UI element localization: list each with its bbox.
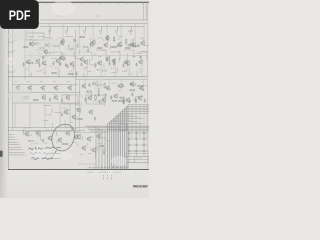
wire xyxy=(132,39,134,46)
wire: supply rail 3 xyxy=(40,26,144,28)
handwritten pencil note line 1 xyxy=(29,147,43,150)
wire xyxy=(62,23,64,40)
wire: bus line 3 horizontal xyxy=(124,107,149,109)
capacitor C15 xyxy=(59,62,61,66)
transistor Q5 xyxy=(89,41,94,47)
label specks xyxy=(130,73,133,75)
label specks xyxy=(103,178,104,180)
wire xyxy=(120,85,125,87)
wire xyxy=(135,105,137,139)
wire xyxy=(100,66,102,77)
label specks xyxy=(111,175,112,177)
label specks xyxy=(37,135,42,137)
resistor R6 xyxy=(97,47,103,48)
wire xyxy=(77,143,79,147)
transistor Q17 xyxy=(125,60,130,66)
wire: lower rail B xyxy=(8,130,85,132)
wire xyxy=(132,80,134,81)
subtle schematic-area wash xyxy=(8,2,149,170)
wire: matrix row xyxy=(127,150,149,152)
wire xyxy=(52,144,54,147)
wire xyxy=(45,37,51,39)
capacitor C16 xyxy=(113,62,115,66)
wire: bus line 4 vertical drop xyxy=(122,110,124,169)
label specks xyxy=(118,50,121,52)
wire xyxy=(146,105,148,139)
label specks xyxy=(25,68,28,70)
wire xyxy=(139,105,141,139)
wire xyxy=(75,116,77,120)
transistor Q19 xyxy=(43,49,48,55)
wire: bus line 7 horizontal xyxy=(117,114,133,116)
wire xyxy=(29,52,31,58)
transistor Q20 xyxy=(79,56,84,62)
capacitor C14 xyxy=(59,56,61,60)
wire xyxy=(108,80,110,85)
label specks xyxy=(97,69,100,71)
wire: section divider right xyxy=(79,80,81,132)
resistor R9 xyxy=(134,45,140,46)
wire xyxy=(14,104,16,128)
connector pin ticks under border xyxy=(87,172,89,173)
transistor Q33 xyxy=(67,85,72,91)
diode D4 xyxy=(128,150,131,152)
block: muting circuit outline xyxy=(86,95,104,104)
wire xyxy=(51,108,53,113)
resistor R39 xyxy=(62,143,68,144)
label specks xyxy=(133,55,136,57)
wire: matrix row xyxy=(127,138,149,140)
capacitor C8 xyxy=(122,64,124,68)
wire: bus line 2 horizontal xyxy=(126,106,149,108)
resistor R17 xyxy=(127,45,133,46)
label specks xyxy=(15,40,16,42)
wire xyxy=(72,45,74,49)
resistor R23 xyxy=(23,97,29,98)
wire: net stub 2 xyxy=(9,136,14,138)
label specks xyxy=(24,127,29,129)
resistor R18 xyxy=(126,39,127,45)
wire xyxy=(118,36,123,38)
wire xyxy=(22,129,24,135)
wire xyxy=(59,44,61,49)
wire xyxy=(110,51,120,53)
wire xyxy=(90,44,92,48)
wire xyxy=(71,142,76,144)
wire xyxy=(50,37,53,39)
capacitor C31 xyxy=(134,98,136,102)
wire xyxy=(141,65,143,77)
wire xyxy=(84,80,86,83)
capacitor C10 xyxy=(87,48,89,52)
label specks xyxy=(129,30,132,32)
wire xyxy=(116,67,118,73)
wire xyxy=(89,136,93,138)
wire xyxy=(105,50,107,58)
transistor Q55 xyxy=(57,137,62,143)
transistor Q10 xyxy=(25,59,30,65)
transistor Q22 xyxy=(123,59,128,65)
wire: ground return rail xyxy=(8,76,147,78)
block: connector CN1 xyxy=(119,124,127,130)
resistor R40 xyxy=(99,145,105,146)
capacitor C5 xyxy=(80,63,82,67)
wire xyxy=(33,143,38,145)
label specks xyxy=(106,140,111,142)
label specks xyxy=(27,81,30,83)
transistor Q43 xyxy=(87,95,92,101)
resistor R31 xyxy=(137,85,143,86)
wire xyxy=(137,51,147,53)
wire xyxy=(81,102,83,106)
wire xyxy=(51,57,58,59)
capacitor C17 xyxy=(65,63,67,67)
wire xyxy=(29,36,34,38)
resistor R38 xyxy=(28,140,34,141)
label specks xyxy=(15,70,16,72)
wire: bus drop left 2 xyxy=(98,128,100,170)
wire xyxy=(98,143,102,145)
transistor Q49 xyxy=(88,109,93,115)
label specks xyxy=(45,39,48,41)
label specks xyxy=(47,114,52,116)
capacitor C27 xyxy=(84,98,86,102)
wire xyxy=(73,63,75,69)
wire xyxy=(51,44,60,46)
transistor Q2 xyxy=(45,42,50,48)
transistor Q59 xyxy=(86,136,91,142)
wire: bus line 12 horizontal xyxy=(108,123,143,125)
wire: bus line 2 vertical drop xyxy=(125,107,127,170)
wire xyxy=(61,53,66,55)
connector pin stubs along top border xyxy=(45,2,47,4)
transistor Q14 xyxy=(83,59,88,65)
resistor R30 xyxy=(130,84,136,85)
wire xyxy=(128,66,130,77)
label above module xyxy=(27,30,30,32)
wire xyxy=(84,66,88,68)
wire xyxy=(118,58,120,62)
diode D9 xyxy=(143,132,146,134)
label: rail voltage 2 xyxy=(96,15,99,17)
wire: net stub 4 xyxy=(9,141,17,143)
capacitor C30 xyxy=(122,100,124,104)
label specks xyxy=(75,107,80,109)
wire xyxy=(143,2,145,20)
transistor Q57 xyxy=(73,134,78,140)
label specks xyxy=(102,137,107,139)
capacitor C9 xyxy=(135,63,137,67)
wire xyxy=(29,104,31,128)
label specks xyxy=(14,136,15,138)
transistor Q7 xyxy=(117,41,122,47)
capacitor C37 xyxy=(122,83,124,87)
capacitor C36 xyxy=(129,99,131,103)
label specks xyxy=(107,175,108,177)
label specks xyxy=(55,67,58,69)
resistor R8 xyxy=(125,47,131,48)
transistor Q8 xyxy=(131,42,136,48)
transistor Q58 xyxy=(76,134,81,140)
label specks xyxy=(40,56,45,58)
wire: bus drop left 4 xyxy=(104,131,106,169)
wire xyxy=(59,104,61,128)
handwritten pencil note line 3 xyxy=(32,158,62,160)
transistor Q53 xyxy=(35,130,40,136)
wire: bus line 8 vertical drop xyxy=(114,117,116,170)
pencil balloon annotation xyxy=(52,124,75,158)
resistor R12 xyxy=(79,36,85,37)
capacitor C25 xyxy=(49,98,51,102)
capacitor C45 xyxy=(103,151,105,155)
label specks xyxy=(69,50,72,52)
wire xyxy=(45,51,54,53)
capacitor C6 xyxy=(94,64,96,68)
diode D3 xyxy=(128,144,131,146)
wire xyxy=(55,112,61,114)
capacitor C23 xyxy=(68,44,70,48)
wire xyxy=(66,113,71,115)
wire xyxy=(141,50,148,52)
transistor Q54 xyxy=(47,135,52,141)
wire xyxy=(142,80,144,85)
label specks xyxy=(83,30,86,32)
resistor R22 xyxy=(51,72,57,73)
wire xyxy=(39,131,41,135)
label specks xyxy=(117,38,120,40)
capacitor C41 xyxy=(94,117,96,121)
wire xyxy=(143,23,145,40)
block: filter outline xyxy=(62,95,78,104)
wire xyxy=(45,50,47,58)
capacitor C43 xyxy=(42,139,44,143)
wire xyxy=(24,30,26,80)
wire xyxy=(32,23,34,41)
capacitor C21 xyxy=(45,43,47,47)
transistor Q45 xyxy=(113,93,118,99)
left page-edge shading xyxy=(0,0,8,198)
label specks xyxy=(65,126,68,128)
label specks xyxy=(48,30,51,32)
wire xyxy=(73,128,78,130)
label specks xyxy=(46,129,49,131)
label specks xyxy=(29,38,32,40)
wire xyxy=(143,44,150,46)
transistor Q50 xyxy=(63,109,68,115)
wire: bus line 11 vertical drop xyxy=(109,122,111,170)
wire xyxy=(52,123,54,127)
scan artifact: punch mark left edge xyxy=(0,151,3,158)
wire xyxy=(126,63,128,67)
wires above title block xyxy=(128,150,149,152)
label specks xyxy=(20,146,21,148)
label specks xyxy=(53,94,56,96)
diode D10 xyxy=(143,138,146,140)
wire: matrix column xyxy=(143,131,145,156)
wire: bus line 6 vertical drop xyxy=(118,113,120,169)
wire: bus line 10 vertical drop xyxy=(110,120,112,169)
label specks xyxy=(34,130,37,132)
label specks xyxy=(15,81,18,83)
wire xyxy=(90,64,98,66)
wire xyxy=(131,105,133,139)
resistor R36 xyxy=(104,83,105,89)
resistor R19 xyxy=(114,59,115,65)
label specks xyxy=(65,30,68,32)
label specks xyxy=(43,119,48,121)
wire xyxy=(119,52,121,60)
transistor Q24 xyxy=(59,55,64,61)
label specks xyxy=(125,69,128,71)
wire: row rail xyxy=(75,132,108,134)
wire: top sheet border xyxy=(0,1,149,3)
transistor Q28 xyxy=(105,35,110,41)
label specks xyxy=(95,62,100,64)
transistor Q39 xyxy=(105,85,110,91)
wire: bus line 1 horizontal xyxy=(128,104,149,106)
transistor Q23 xyxy=(129,42,134,48)
wire xyxy=(64,120,66,127)
transistor Q13 xyxy=(69,61,74,67)
capacitor C34 xyxy=(135,99,137,103)
capacitor C39 xyxy=(88,83,90,87)
wire xyxy=(72,67,74,77)
wire xyxy=(39,135,41,141)
label specks xyxy=(111,67,114,69)
scanned paper background xyxy=(0,0,149,198)
label specks xyxy=(112,82,117,84)
wire: bus line 12 vertical drop xyxy=(107,124,109,170)
wire: left sheet border xyxy=(7,2,9,169)
resistor R7 xyxy=(111,46,117,47)
wire: net stub 8 xyxy=(9,151,23,153)
diode D7 xyxy=(135,144,138,146)
transistor Q51 xyxy=(71,114,76,120)
wire: bottom sheet border xyxy=(8,169,149,171)
label: table cell xyxy=(127,160,130,162)
label specks xyxy=(65,94,68,96)
resistor R15 xyxy=(74,51,75,57)
wire: bus line 5 horizontal xyxy=(121,111,149,113)
wire xyxy=(96,80,98,81)
diode D2 xyxy=(128,138,131,140)
wire xyxy=(49,53,51,56)
handwritten pencil note line 2 xyxy=(30,152,61,154)
label specks xyxy=(107,178,108,180)
transistor Q9 xyxy=(140,40,145,46)
label specks xyxy=(76,104,79,106)
label specks xyxy=(131,39,134,41)
label specks xyxy=(51,129,56,131)
wire: bus line 7 vertical drop xyxy=(116,115,118,169)
wire: right sheet border xyxy=(146,2,148,169)
wire xyxy=(65,35,73,37)
transistor Q36 xyxy=(65,95,70,101)
transistor Q44 xyxy=(101,97,106,103)
wire xyxy=(31,73,33,77)
diode D5 xyxy=(135,132,138,134)
wire xyxy=(133,50,135,58)
label specks xyxy=(43,72,46,74)
label specks xyxy=(107,176,108,178)
wire: bus line 9 horizontal xyxy=(113,117,143,119)
label specks xyxy=(22,149,23,151)
wire: row link xyxy=(22,131,78,133)
transistor Q15 xyxy=(97,60,102,66)
wire xyxy=(89,147,91,150)
resistor R34 xyxy=(118,100,124,101)
label specks xyxy=(119,90,122,92)
wire: bus line 3 vertical drop xyxy=(123,108,125,169)
capacitor C3 xyxy=(52,62,54,66)
capacitor C44 xyxy=(71,127,73,131)
label specks xyxy=(142,85,147,87)
wire: tone section rail B xyxy=(8,91,80,93)
label specks xyxy=(29,59,32,61)
capacitor C20 xyxy=(76,72,78,76)
wire xyxy=(91,92,93,99)
capacitor C1 xyxy=(22,63,24,67)
label specks xyxy=(111,176,112,178)
capacitor C29 xyxy=(110,96,112,100)
transistor Q37 xyxy=(81,83,86,89)
wire xyxy=(66,48,76,50)
label specks xyxy=(15,60,16,62)
wire xyxy=(127,54,129,61)
transistor Q40 xyxy=(117,83,122,89)
diode D11 xyxy=(143,144,146,146)
resistor R1 xyxy=(23,46,29,47)
label specks xyxy=(19,144,20,146)
resistor R32 xyxy=(96,84,102,85)
wire xyxy=(38,35,44,37)
resistor R26 xyxy=(112,100,118,101)
wire: matrix column xyxy=(128,131,130,156)
label specks xyxy=(35,62,40,64)
capacitor C32 xyxy=(92,82,94,86)
capacitor C2 xyxy=(38,64,40,68)
capacitor C12 xyxy=(64,57,66,61)
decoupling clusters under rails xyxy=(49,27,50,35)
wire xyxy=(86,65,88,77)
capacitor C22 xyxy=(29,42,31,46)
wire xyxy=(43,63,48,65)
wire xyxy=(44,104,46,128)
wire xyxy=(48,23,50,42)
label specks xyxy=(28,134,33,136)
wire: short run to connector xyxy=(78,163,96,165)
block: tone doubler module xyxy=(26,33,44,40)
resistor R5 xyxy=(83,46,89,47)
wire xyxy=(91,52,93,60)
wire xyxy=(140,70,142,73)
transistor Q18 xyxy=(138,59,143,65)
label specks xyxy=(103,39,106,41)
wire xyxy=(78,23,80,43)
wire: tone section rail C xyxy=(12,102,80,104)
transistor Q56 xyxy=(65,130,70,136)
label specks xyxy=(103,176,104,178)
label specks xyxy=(103,50,106,52)
resistor R4 xyxy=(69,48,75,49)
wire: net stub 7 xyxy=(9,149,21,151)
capacitor C40 xyxy=(98,93,100,97)
label specks xyxy=(15,50,16,52)
wire xyxy=(111,72,116,74)
wire: bus line 1 vertical drop xyxy=(127,105,129,170)
label specks xyxy=(17,141,18,143)
wire: lower bus row 4 xyxy=(90,130,150,132)
